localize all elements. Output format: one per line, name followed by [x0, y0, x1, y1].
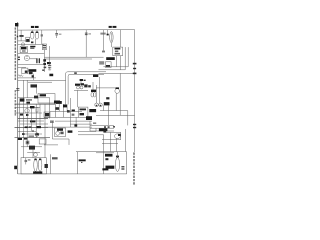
wire drop to IF box: [41, 30, 43, 44]
IF transformer T2 dark bar: [91, 90, 96, 92]
diode circle 1: [77, 86, 80, 89]
socket box: [78, 107, 88, 117]
T1 winding leads: [31, 30, 33, 31]
capacitor C2: [55, 33, 58, 35]
output transformer dark blob: [118, 134, 121, 136]
corner component box: [39, 139, 46, 144]
L1 dark core: [21, 47, 27, 49]
trimmer circle: [21, 43, 24, 46]
ground below C5: [49, 67, 51, 68]
diode circle 2: [80, 86, 83, 89]
label right of circles (dark): [104, 102, 110, 105]
blob circle y134: [35, 133, 38, 136]
riser 2: [77, 152, 79, 174]
cap value text: [28, 159, 31, 160]
wire row y124: [20, 123, 48, 125]
left margin vertical caption text: [15, 28, 17, 116]
plus mark: [103, 130, 106, 132]
filter text gray: [99, 61, 104, 64]
blob under box (dark): [54, 101, 60, 104]
right drop: [127, 111, 129, 126]
V3 pin blob: [107, 34, 109, 36]
dark bar component: [31, 84, 38, 87]
grid bus lower: [44, 58, 92, 60]
wire to box: [45, 126, 54, 128]
shield box inner corner: [68, 74, 104, 104]
chain cap blob 1: [43, 59, 46, 61]
wire y139.6: [102, 139, 121, 141]
screen drop wire: [119, 73, 121, 115]
mixer label blob (dark): [20, 98, 25, 101]
wire drop V3 plate: [106, 30, 108, 34]
trimmer lower lead: [20, 37, 22, 41]
wire y132.4 right: [106, 131, 121, 133]
left margin rule: [17, 22, 19, 174]
vibrator dark bar: [57, 128, 63, 130]
rectifier output drops: [116, 56, 118, 67]
dark cluster under socket: [86, 116, 92, 120]
small blob: [32, 75, 34, 77]
wire row y113: [15, 112, 43, 114]
riser 2 tick: [81, 162, 82, 163]
right verticals: [124, 47, 126, 70]
plate wire V1 to IF: [30, 58, 37, 60]
V1 internal electrodes: [26, 56, 28, 58]
T2 riser: [92, 82, 94, 90]
blob y135.4 gray: [29, 135, 35, 137]
capacitor C2 lead: [56, 30, 58, 33]
bottom bus wire: [18, 173, 127, 175]
right bus component ticks: [133, 63, 137, 65]
tube V1 label (dark): [30, 46, 35, 47]
wire row y146.8: [21, 146, 42, 148]
IF input box stripes: [43, 45, 46, 46]
wire y115.4: [96, 114, 135, 116]
field coil label (dark): [106, 166, 115, 169]
wire drop rectifier: [120, 30, 122, 47]
top B+ bus wire: [18, 29, 135, 32]
vibrator circle: [56, 132, 60, 136]
cluster verticals: [19, 102, 21, 138]
avc line 2: [28, 81, 52, 83]
speaker right edge wire: [126, 152, 128, 174]
V3 internal electrode: [110, 33, 112, 42]
osc coil T1 winding B: [35, 31, 39, 39]
capacitor C3 plates: [85, 32, 88, 34]
box edge blob (dark): [45, 164, 48, 168]
R2 dark marks: [106, 65, 110, 67]
winding top ticks: [34, 159, 36, 161]
right margin vertical caption text: [133, 152, 135, 184]
chain lower marks: [44, 67, 47, 69]
IF transformer primary (dark bars): [36, 58, 37, 63]
blob gray y120.4: [50, 120, 54, 123]
lower right box lines: [90, 124, 114, 126]
riser to circles: [103, 105, 105, 110]
diode row blobs: [75, 84, 80, 86]
grid bus upper: [44, 56, 103, 58]
grid cap text: [100, 33, 105, 35]
bottom-left components box small: [26, 141, 29, 144]
socket feed wire: [77, 90, 79, 107]
wire row y107: [15, 106, 41, 108]
margin capacitor C6: [16, 88, 19, 90]
tube V1 envelope: [24, 55, 29, 60]
component dark mark: [27, 142, 29, 144]
riser to power box: [32, 150, 34, 158]
wire row y118.4: [18, 117, 48, 119]
osc coil T1 winding A: [30, 31, 34, 39]
field label (dark): [105, 154, 113, 157]
det bottom wire: [74, 89, 88, 91]
grid wire to V2: [96, 87, 115, 89]
mixer label text gray: [26, 99, 32, 101]
det label (dark): [93, 75, 98, 77]
feed wire: [107, 105, 109, 125]
T1 bottom tick (dark): [31, 42, 33, 44]
IF vertical b: [26, 80, 28, 98]
wire y77.9: [18, 77, 36, 79]
wire row y131.3: [18, 130, 36, 132]
blob pair y126.5: [25, 126, 28, 128]
center cluster verticals: [48, 98, 50, 118]
dark bar component A: [29, 69, 37, 72]
wire under windings: [18, 44, 45, 46]
cathode wire: [18, 64, 44, 66]
L1 inner marks: [22, 50, 26, 51]
wire y110.6: [100, 110, 128, 112]
center h-wires: [50, 110, 82, 112]
C3 value text: [88, 33, 91, 34]
resistor R1 zigzag: [18, 75, 23, 77]
wire under T1: [18, 40, 30, 42]
output transformer oval: [114, 134, 120, 139]
blob on margin y138 (dark): [18, 138, 22, 140]
rectifier box: [113, 47, 123, 56]
blob right end y126 (dark): [37, 126, 41, 128]
blob y133.2b (dark): [35, 133, 38, 135]
oval top lead: [117, 152, 119, 158]
diode dark marks: [84, 84, 87, 87]
margin tick: [17, 36, 18, 38]
wire row y127.4: [15, 126, 49, 128]
wire row y134: [22, 133, 42, 135]
gray tick near box: [93, 122, 96, 124]
speaker bus wire: [76, 151, 127, 153]
det riser: [80, 81, 82, 84]
volume control dark bar: [40, 94, 46, 96]
bottom right frame wires: [78, 131, 96, 133]
page number blob: [15, 23, 18, 26]
osc coil box L1: [20, 46, 27, 52]
transformer winding oval A: [34, 158, 38, 171]
lower right box left edge: [89, 121, 91, 131]
tube V3 envelope: [110, 32, 113, 43]
resistor box small: [36, 107, 38, 112]
riser 2 label (dark): [79, 159, 86, 161]
right h-wires: [103, 66, 128, 68]
output tube circles: [95, 103, 99, 107]
coupling capacitor C5: [48, 65, 51, 67]
blob y138b (dark): [24, 138, 28, 140]
vibrator marks: [60, 132, 63, 135]
padder box: [26, 37, 30, 42]
tone box dark fill: [45, 113, 49, 116]
top right small marks: [105, 158, 108, 160]
cathode resistor blob (dark): [106, 97, 109, 99]
antenna trimmer C1 (dark bar): [19, 35, 23, 37]
IF vertical a: [22, 80, 24, 157]
ot verticals: [109, 132, 111, 151]
fig caption vertical label: [14, 166, 17, 170]
IF input box: [42, 44, 46, 50]
vibrator label (dark): [68, 130, 73, 132]
wire row y137.7: [15, 137, 51, 139]
lower box label (dark): [99, 128, 108, 131]
grid stopper mark: [102, 51, 105, 53]
choke dark box: [29, 146, 35, 150]
T1 winding top ticks: [31, 32, 33, 33]
padder dark fill: [26, 39, 29, 42]
shield tick: [74, 72, 77, 73]
V2 cathode drop: [115, 93, 117, 110]
wire row y104: [15, 103, 56, 105]
field coil oval: [115, 158, 119, 172]
second blob (dark): [26, 102, 30, 104]
speaker bus wire 2: [96, 152, 114, 154]
chain value text (dark): [47, 62, 51, 64]
IF vertical c: [36, 88, 38, 94]
top ticks: [104, 126, 106, 128]
avc stub: [18, 66, 26, 68]
blob row y120.4 (dark): [30, 120, 35, 122]
rectifier stripes: [115, 51, 118, 53]
riser 1: [49, 154, 51, 174]
power transformer box: [21, 158, 46, 174]
wire y143.6: [102, 143, 118, 145]
wire row y121: [18, 120, 44, 122]
tube circle pupils: [96, 105, 97, 106]
shield box outer corner: [66, 72, 106, 105]
center blobs (dark): [56, 101, 62, 104]
rectifier dark top bar: [115, 48, 121, 50]
blob y133.2 (dark): [22, 133, 25, 135]
blob dark y124.4: [74, 124, 77, 126]
chain cap blob 2: [43, 63, 46, 65]
oval lead tick: [116, 156, 119, 158]
pilot circle: [34, 153, 38, 157]
winding base bar (dark): [33, 171, 42, 173]
riser above avc: [33, 74, 35, 81]
label osc section (dark): [31, 26, 34, 28]
tube V2 envelope: [115, 89, 120, 94]
margin tick components: [18, 57, 20, 58]
coupling box dark fill: [25, 71, 28, 73]
volume control box: [38, 94, 55, 103]
IF label blob (dark): [30, 106, 35, 108]
dark bar component B: [29, 72, 33, 74]
line cap lead: [25, 158, 27, 160]
det right verticals: [95, 85, 97, 103]
polarity marks: [121, 166, 124, 167]
lower avc wire: [18, 97, 50, 99]
blob y130.3 gray: [32, 130, 34, 132]
transformer winding oval B: [38, 158, 42, 171]
wire drop V3 grid: [102, 30, 104, 51]
right bus wire: [134, 30, 136, 152]
m.om label (dark): [102, 168, 108, 170]
label rect section (dark): [109, 26, 112, 28]
value text: [41, 34, 43, 36]
grid wire: [18, 53, 45, 55]
rect label (dark): [106, 57, 115, 60]
avc line left: [18, 79, 66, 81]
resistor R2 box: [105, 62, 111, 68]
tone box: [44, 112, 50, 117]
speaker label (dark): [89, 109, 96, 112]
socket dark bars: [80, 109, 87, 111]
vol side component (dark): [34, 96, 38, 99]
line capacitor: [25, 159, 28, 161]
coupling box: [22, 68, 28, 74]
capacitor C3 riser: [85, 30, 87, 57]
antenna trimmer lead: [20, 30, 22, 35]
V3 bottom lead: [111, 43, 113, 47]
riser to C5: [49, 46, 51, 65]
vibrator box: [54, 128, 65, 136]
vertical chain right of V1: [43, 50, 45, 72]
V2 top cap (dark): [115, 87, 119, 89]
riser 1 label gray: [52, 157, 58, 159]
wire y144.9: [44, 144, 58, 146]
tube V4 envelope: [25, 109, 29, 113]
wire y152.4: [27, 151, 40, 153]
mode label (dark): [49, 74, 53, 77]
cap tick row: [20, 114, 23, 116]
T1 core line: [34, 39, 36, 45]
T2 winding ovals: [91, 92, 93, 97]
center-low wire L: [52, 121, 69, 145]
det cluster label (dark): [80, 79, 83, 81]
